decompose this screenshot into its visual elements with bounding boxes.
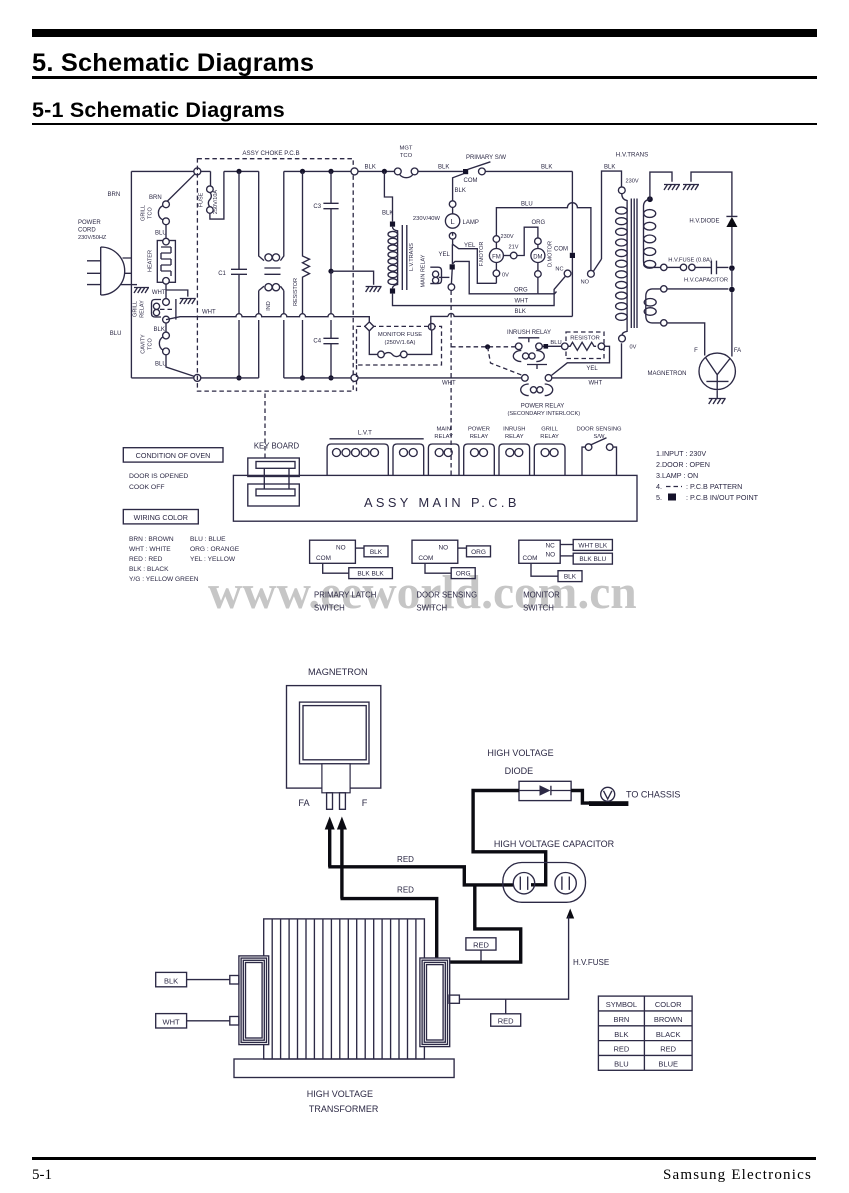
- inductor IND choke upper winding: [259, 171, 264, 260]
- svg-text:YEL: YEL: [439, 252, 451, 258]
- wire BLU lamp line to NO contact with hop over rail: [496, 203, 591, 271]
- svg-text:BLK BLK: BLK BLK: [357, 571, 384, 578]
- svg-text:RED : RED: RED : RED: [129, 556, 163, 563]
- svg-text:L.V.TRANS: L.V.TRANS: [409, 243, 415, 271]
- capacitor C1: [236, 169, 241, 174]
- motor F.MOTOR: [493, 236, 500, 243]
- relay contact POWER RELAY secondary interlock: [527, 365, 547, 370]
- svg-text:F.MOTOR: F.MOTOR: [479, 242, 485, 267]
- svg-text:BLU: BLU: [110, 331, 122, 337]
- ground at power cord: [121, 284, 137, 286]
- assembly box MONITOR FUSE: [357, 326, 442, 365]
- svg-text:HEATER: HEATER: [148, 250, 154, 272]
- wire bottom rail from plug to choke bottom-left terminal: [131, 377, 193, 379]
- svg-text:BLK : BLACK: BLK : BLACK: [129, 566, 169, 573]
- wire C3 junction to choke ground: [331, 271, 374, 285]
- svg-text:NO: NO: [439, 545, 449, 552]
- transformer HVT primary winding: [622, 194, 627, 335]
- transformer L.V.TRANS primary: [390, 222, 395, 227]
- svg-text:ORG: ORG: [514, 287, 528, 293]
- relay contact NC: [564, 270, 571, 277]
- svg-text:COM: COM: [523, 555, 538, 562]
- wire grill relay to cavity TCO: [165, 323, 167, 332]
- svg-text:DOOR SENSING: DOOR SENSING: [416, 591, 477, 600]
- svg-text:COM: COM: [554, 247, 568, 253]
- switch PRIMARY S/W: [463, 169, 468, 174]
- svg-text:GRILL: GRILL: [141, 205, 147, 221]
- svg-text:230V: 230V: [626, 179, 639, 185]
- svg-text:21V: 21V: [509, 245, 519, 251]
- wire grill TCO to heater: [165, 225, 167, 239]
- thermal cutout GRILL TCO: [163, 201, 170, 208]
- svg-text:BRN : BROWN: BRN : BROWN: [129, 536, 174, 543]
- svg-text:RED: RED: [613, 1045, 629, 1054]
- wire lamp to YEL junction: [452, 232, 454, 244]
- wire lamp node down to main relay square: [451, 244, 453, 264]
- switch PRIMARY LATCH SWITCH: [310, 540, 356, 563]
- chassis lug TO CHASSIS: [589, 801, 628, 806]
- magnetron pins FA and F: [327, 793, 333, 810]
- svg-text:5.: 5.: [656, 493, 662, 502]
- svg-text:0V: 0V: [630, 345, 637, 351]
- svg-text:RELAY: RELAY: [505, 434, 524, 440]
- node COM square on right rail: [570, 253, 575, 258]
- svg-text:MONITOR FUSE: MONITOR FUSE: [378, 332, 422, 338]
- wire primary switch to right rail BLK: [485, 170, 572, 172]
- wire heater to grill relay junction: [165, 284, 167, 299]
- pcb box ASSY MAIN P.C.B: [233, 475, 637, 521]
- label WHT boxed primary lead: [156, 1014, 187, 1028]
- node HV fuse terminal: [661, 264, 667, 270]
- node junction to LV transformer: [382, 169, 387, 174]
- svg-text:NO: NO: [336, 545, 346, 552]
- svg-text:BLK: BLK: [164, 977, 178, 986]
- node choke output terminal top: [351, 168, 358, 175]
- wire junction to heater-circuit ground: [166, 290, 188, 297]
- svg-text:BLK: BLK: [541, 165, 552, 171]
- footer Samsung Electronics: [663, 1167, 812, 1184]
- node pcb trace junction: [485, 344, 490, 349]
- svg-text:NC: NC: [546, 543, 556, 550]
- pcb pattern junction to power relay contact: [488, 347, 522, 375]
- diode H.V.DIODE: [726, 213, 737, 216]
- svg-text:1.INPUT : 230V: 1.INPUT : 230V: [656, 449, 706, 458]
- svg-text:CAVITY: CAVITY: [141, 334, 147, 354]
- pcb pattern main relay trace to inrush relay: [451, 346, 515, 348]
- label RED boxed at transformer: [466, 938, 496, 950]
- svg-text:MAGNETRON: MAGNETRON: [648, 371, 687, 377]
- thermal cutout MGT TCO: [394, 168, 401, 175]
- svg-text:3.LAMP : ON: 3.LAMP : ON: [656, 471, 698, 480]
- svg-text:COM: COM: [418, 555, 433, 562]
- rule under heading: [32, 76, 817, 79]
- svg-text:RELAY: RELAY: [140, 300, 146, 318]
- wire diagonal choke input to grill TCO: [167, 174, 195, 202]
- svg-text:WHT BLK: WHT BLK: [578, 542, 607, 549]
- fuse H.V.FUSE line with arrow: [566, 909, 574, 919]
- svg-text:MAGNETRON: MAGNETRON: [308, 667, 368, 677]
- svg-text:PRIMARY S/W: PRIMARY S/W: [466, 155, 506, 161]
- wire WHT grill relay to monitor fuse with hops: [166, 314, 369, 323]
- heading 5-1 Schematic Diagrams: [32, 98, 285, 123]
- svg-text:RED: RED: [473, 941, 489, 950]
- svg-text:NC: NC: [555, 267, 563, 273]
- wire YEL resistor to power relay blade: [552, 346, 610, 375]
- fuse FUSE 250V/10A: [210, 171, 212, 185]
- svg-text:RELAY: RELAY: [540, 434, 559, 440]
- svg-text:230V/40W: 230V/40W: [413, 216, 441, 222]
- fuse MONITOR FUSE element: [369, 331, 377, 355]
- svg-text:BLU: BLU: [614, 1059, 629, 1068]
- svg-text:BRN: BRN: [149, 195, 162, 201]
- svg-text:C3: C3: [313, 204, 321, 210]
- label BLK boxed primary lead: [156, 972, 187, 986]
- resistor RESISTOR bleeder: [300, 169, 305, 174]
- wire rail COM to BLK bottom wire: [571, 258, 573, 316]
- svg-text:DOOR SENSING: DOOR SENSING: [576, 427, 622, 433]
- power cord plug: [101, 247, 125, 295]
- svg-text:: P.C.B IN/OUT POINT: : P.C.B IN/OUT POINT: [686, 493, 759, 502]
- svg-text:DIODE: DIODE: [505, 766, 534, 776]
- svg-text:BLK: BLK: [370, 549, 383, 556]
- node filament top terminal: [661, 286, 667, 292]
- svg-text:WHT: WHT: [515, 299, 529, 305]
- wire MGT TCO to primary switch: [418, 170, 463, 172]
- svg-text:INRUSH: INRUSH: [503, 427, 525, 433]
- lamp LAMP 230V/40W: [452, 207, 454, 213]
- svg-text:BLK: BLK: [604, 165, 615, 171]
- svg-text:SYMBOL: SYMBOL: [606, 1000, 637, 1009]
- node choke output terminal bottom: [351, 374, 358, 381]
- svg-text:COLOR: COLOR: [655, 1000, 682, 1009]
- svg-text:BROWN: BROWN: [654, 1015, 683, 1024]
- capacitor H.V.CAPACITOR: [695, 261, 728, 275]
- wire FM to 21V terminal: [503, 255, 510, 257]
- wire diode to chassis: [571, 791, 590, 804]
- svg-text:BLK: BLK: [455, 188, 466, 194]
- svg-text:MAIN RELAY: MAIN RELAY: [421, 254, 427, 287]
- svg-text:CONDITION OF OVEN: CONDITION OF OVEN: [136, 451, 211, 460]
- svg-text:GRILL: GRILL: [133, 301, 139, 317]
- wire FA rail to magnetron: [731, 268, 733, 356]
- footer rule: [32, 1157, 816, 1160]
- wire cavity TCO diagonal to choke bottom terminal: [166, 355, 195, 377]
- wire diode branch to capacitor thick: [473, 791, 546, 885]
- svg-text:WHT: WHT: [589, 380, 603, 386]
- node BLU square at inrush relay output: [542, 345, 562, 347]
- svg-text:Y/G : YELLOW GREEN: Y/G : YELLOW GREEN: [129, 576, 199, 583]
- svg-text:FA: FA: [734, 348, 741, 354]
- svg-text:C4: C4: [313, 339, 321, 345]
- svg-text:IND: IND: [266, 301, 272, 311]
- svg-text:COM: COM: [316, 555, 331, 562]
- svg-text:BLK: BLK: [564, 574, 577, 581]
- node junction diode-capacitor rail: [729, 265, 735, 271]
- diode H.V. diode lower diagram: [519, 781, 571, 800]
- ground heater circuit: [180, 299, 196, 305]
- magnetron MAGNETRON: [699, 353, 735, 389]
- svg-text:BLU: BLU: [155, 362, 167, 368]
- svg-text:RED: RED: [397, 886, 414, 895]
- wire top rail inside choke pcb: [201, 170, 351, 172]
- svg-text:BLUE: BLUE: [658, 1059, 678, 1068]
- svg-text:2.DOOR : OPEN: 2.DOOR : OPEN: [656, 460, 710, 469]
- wire filament top to FA rail: [667, 288, 728, 290]
- svg-text:RED: RED: [397, 855, 414, 864]
- svg-text:BLK: BLK: [614, 1030, 628, 1039]
- svg-text:H.V.FUSE: H.V.FUSE: [573, 958, 609, 967]
- wire choke lower winding legs to bottom rail: [259, 291, 284, 378]
- wire RED magnetron F to HV transformer: [341, 899, 437, 958]
- wire magnetron to ground: [716, 390, 718, 398]
- svg-text:HIGH VOLTAGE CAPACITOR: HIGH VOLTAGE CAPACITOR: [494, 839, 615, 849]
- wire ORG 21V to drain motor top: [517, 227, 538, 255]
- svg-text:DM: DM: [533, 254, 542, 260]
- svg-text:MONITOR: MONITOR: [523, 591, 560, 600]
- relay coil MAIN RELAY: [450, 264, 455, 269]
- transformer base: [234, 1059, 454, 1078]
- svg-text:NO: NO: [581, 280, 590, 286]
- footer page number 5-1: [32, 1167, 52, 1184]
- node HVT 0V terminal: [619, 335, 626, 342]
- table SYMBOL COLOR: [598, 996, 692, 1070]
- svg-text:L.V.T: L.V.T: [358, 430, 372, 437]
- svg-text:NO: NO: [546, 552, 556, 559]
- wire filament bottom to magnetron F: [667, 323, 705, 356]
- svg-text:(250V/1.6A): (250V/1.6A): [385, 340, 416, 346]
- svg-text:COM: COM: [464, 178, 478, 184]
- svg-text:INRUSH RELAY: INRUSH RELAY: [507, 330, 551, 336]
- ground HV rail chassis: [691, 172, 732, 213]
- svg-text:BLU: BLU: [550, 340, 561, 346]
- svg-text:ASSY MAIN P.C.B: ASSY MAIN P.C.B: [364, 495, 520, 510]
- svg-text:PRIMARY LATCH: PRIMARY LATCH: [314, 591, 376, 600]
- svg-text:RESISTOR: RESISTOR: [570, 335, 600, 341]
- transformer HVT core: [630, 199, 632, 329]
- wire RED magnetron to capacitor: [328, 867, 514, 885]
- svg-text:BLU: BLU: [521, 202, 533, 208]
- inductor IND choke lower winding: [259, 286, 264, 290]
- svg-text:F: F: [362, 798, 368, 808]
- transformer HIGH VOLTAGE TRANSFORMER core: [264, 919, 425, 1059]
- header top black bar: [32, 29, 817, 37]
- svg-text:D.MOTOR: D.MOTOR: [547, 241, 553, 267]
- node choke input terminal: [194, 168, 201, 175]
- assembly box ASSY CHOKE P.C.B: [197, 159, 353, 391]
- heading 5. Schematic Diagrams: [32, 49, 314, 78]
- legend box CONDITION OF OVEN: [123, 448, 223, 462]
- wire bottom rail inside choke pcb: [201, 377, 351, 379]
- svg-text:ORG : ORANGE: ORG : ORANGE: [190, 546, 240, 553]
- node monitor fuse to BLK terminal: [428, 323, 435, 330]
- capacitor C3: [328, 169, 333, 174]
- relay contact INRUSH RELAY: [518, 338, 539, 343]
- wire WHT bottom rail to power relay: [358, 377, 522, 379]
- relay contact NO: [588, 270, 595, 277]
- wire RED transformer secondary to capacitor: [450, 886, 521, 962]
- wire COM down to lamp: [453, 174, 464, 201]
- pcb pattern monitor box to choke edge: [356, 365, 358, 391]
- wire right rail BLK down: [571, 171, 573, 252]
- pcb pattern keyboard riser: [264, 391, 266, 458]
- capacitor body high voltage: [503, 863, 586, 903]
- svg-text:POWER: POWER: [468, 427, 490, 433]
- node diamond connector WHT to monitor fuse: [365, 322, 374, 331]
- transformer primary winding left: [239, 956, 269, 1045]
- svg-text:ORG: ORG: [456, 571, 471, 578]
- switch DOOR SENSING SWITCH: [412, 540, 458, 563]
- svg-text:POWER: POWER: [78, 220, 101, 226]
- svg-text:BLK BLU: BLK BLU: [579, 556, 606, 563]
- svg-text:LAMP: LAMP: [463, 220, 479, 226]
- rule under sub-heading: [32, 123, 817, 126]
- svg-text:0V: 0V: [502, 273, 509, 279]
- heater HEATER: [157, 241, 175, 283]
- svg-text:YEL : YELLOW: YEL : YELLOW: [190, 556, 236, 563]
- svg-text:BRN: BRN: [108, 192, 121, 198]
- svg-text:WHT: WHT: [152, 290, 166, 296]
- capacitor C4: [323, 271, 338, 378]
- node HVT 230V terminal: [618, 187, 625, 194]
- svg-text:H.V.CAPACITOR: H.V.CAPACITOR: [684, 278, 728, 284]
- svg-text:FM: FM: [492, 254, 501, 260]
- node junction C3 to ground branch: [328, 269, 333, 274]
- svg-text:230V: 230V: [501, 234, 514, 240]
- svg-text:BLU: BLU: [155, 231, 167, 237]
- fuse H.V.FUSE 0.8A: [680, 264, 686, 270]
- transformer HVT filament winding: [646, 289, 661, 323]
- relay contact GRILL RELAY: [163, 299, 170, 306]
- transformer HVT secondary winding: [647, 196, 653, 202]
- svg-text:TO CHASSIS: TO CHASSIS: [626, 790, 680, 800]
- label RED boxed at HV fuse line: [491, 1014, 521, 1026]
- wire HVT secondary top to chassis ground: [650, 172, 672, 199]
- svg-text:ORG: ORG: [471, 549, 486, 556]
- svg-text:BLK: BLK: [438, 165, 449, 171]
- svg-text:MGT: MGT: [400, 146, 413, 152]
- svg-text:250V/10A: 250V/10A: [213, 190, 219, 214]
- wire top BLK rail choke to MGT TCO: [358, 170, 394, 172]
- svg-text:WHT: WHT: [202, 310, 216, 316]
- svg-text:F: F: [694, 348, 698, 354]
- svg-text:ASSY CHOKE P.C.B: ASSY CHOKE P.C.B: [242, 150, 299, 157]
- svg-text:WHT : WHITE: WHT : WHITE: [129, 546, 171, 553]
- svg-text:POWER RELAY: POWER RELAY: [521, 404, 565, 410]
- svg-text:SWITCH: SWITCH: [523, 604, 554, 613]
- node filament bottom terminal: [661, 320, 667, 326]
- transformer secondary winding right: [420, 958, 450, 1047]
- svg-text:GRILL: GRILL: [541, 427, 559, 433]
- svg-text:BRN: BRN: [613, 1015, 629, 1024]
- legend box WIRING COLOR: [123, 510, 198, 524]
- svg-text:HIGH VOLTAGE: HIGH VOLTAGE: [487, 748, 553, 758]
- thermal cutout CAVITY TCO: [163, 332, 170, 339]
- svg-text:BLK: BLK: [382, 211, 393, 217]
- svg-text:: P.C.B PATTERN: : P.C.B PATTERN: [686, 482, 742, 491]
- svg-text:COOK OFF: COOK OFF: [129, 484, 165, 491]
- svg-text:230V/50HZ: 230V/50HZ: [78, 235, 107, 241]
- transformer filament terminal right: [449, 995, 459, 1003]
- watermark www.eeworld.com.cn: [208, 566, 637, 620]
- ground magnetron: [709, 399, 726, 405]
- capacitor terminal left: [513, 873, 534, 894]
- svg-text:RELAY: RELAY: [434, 434, 453, 440]
- wire plug to line BRN side: [123, 258, 132, 273]
- svg-text:ORG: ORG: [532, 220, 546, 226]
- svg-text:TCO: TCO: [400, 153, 413, 159]
- svg-text:MAIN: MAIN: [436, 427, 451, 433]
- svg-text:H.V.TRANS: H.V.TRANS: [616, 152, 648, 159]
- wire RED arrow to FA pin: [325, 817, 335, 830]
- svg-text:L: L: [451, 217, 455, 226]
- svg-text:WHT: WHT: [163, 1018, 180, 1027]
- svg-text:CORD: CORD: [78, 228, 96, 234]
- svg-text:BLACK: BLACK: [656, 1030, 681, 1039]
- svg-text:FUSE: FUSE: [199, 192, 205, 207]
- wire top rail from plug to choke input: [131, 170, 193, 172]
- wire WHT power relay to HV transformer 0V: [552, 343, 622, 378]
- wire YEL lamp to fan motor 0V: [453, 244, 497, 283]
- wire main relay square to pcb terminal: [450, 270, 453, 284]
- svg-text:WIRING COLOR: WIRING COLOR: [134, 513, 188, 522]
- svg-text:H.V.FUSE (0.8A): H.V.FUSE (0.8A): [668, 258, 712, 264]
- wire junction down to LV transformer primary: [384, 171, 392, 221]
- ground HVT secondary: [664, 185, 680, 191]
- switch blade NO to HV transformer feed: [593, 259, 601, 272]
- ground choke pcb: [366, 287, 382, 293]
- capacitor terminal right: [555, 873, 576, 894]
- svg-text:4.: 4.: [656, 482, 662, 491]
- motor D.MOTOR: [535, 238, 542, 245]
- svg-text:RED: RED: [660, 1045, 676, 1054]
- svg-text:TCO: TCO: [148, 206, 154, 218]
- svg-text:TRANSFORMER: TRANSFORMER: [309, 1104, 379, 1114]
- wire BLK right rail to monitor fuse terminal: [431, 313, 573, 330]
- wire ORG drain motor return: [452, 261, 538, 293]
- svg-text:HIGH VOLTAGE: HIGH VOLTAGE: [307, 1089, 373, 1099]
- resistor RESISTOR inrush: [566, 332, 604, 359]
- svg-text:BLK: BLK: [365, 165, 376, 171]
- wire left vertical line conductor: [130, 171, 132, 378]
- svg-text:BLU : BLUE: BLU : BLUE: [190, 536, 226, 543]
- svg-text:DOOR IS OPENED: DOOR IS OPENED: [129, 473, 188, 480]
- inductor core lines: [264, 268, 280, 274]
- svg-text:RED: RED: [498, 1017, 514, 1026]
- node choke bottom-left terminal: [194, 374, 201, 381]
- node lamp terminal lower: [449, 233, 456, 240]
- node main relay pcb terminal: [448, 284, 455, 291]
- wire RED arrow to F pin: [337, 817, 347, 830]
- svg-text:WHT: WHT: [442, 380, 456, 386]
- svg-text:FA: FA: [298, 798, 310, 808]
- wire LV trans secondary-side to WHT return: [393, 276, 566, 305]
- node lamp terminal upper: [449, 201, 456, 208]
- svg-text:BLK: BLK: [515, 309, 526, 315]
- svg-text:RELAY: RELAY: [470, 434, 489, 440]
- svg-text:SWITCH: SWITCH: [416, 604, 447, 613]
- pcb pattern main relay to pcb box: [450, 291, 452, 476]
- svg-text:C1: C1: [218, 271, 226, 277]
- svg-text:RESISTOR: RESISTOR: [293, 278, 299, 306]
- svg-text:(SECONDARY INTERLOCK): (SECONDARY INTERLOCK): [508, 411, 581, 417]
- svg-text:KEY BOARD: KEY BOARD: [254, 442, 300, 451]
- switch MONITOR SWITCH: [519, 540, 560, 563]
- svg-text:BLK: BLK: [154, 327, 165, 333]
- svg-text:YEL: YEL: [586, 366, 598, 372]
- svg-text:H.V.DIODE: H.V.DIODE: [689, 219, 719, 225]
- svg-text:TCO: TCO: [148, 337, 154, 349]
- svg-text:SWITCH: SWITCH: [314, 604, 345, 613]
